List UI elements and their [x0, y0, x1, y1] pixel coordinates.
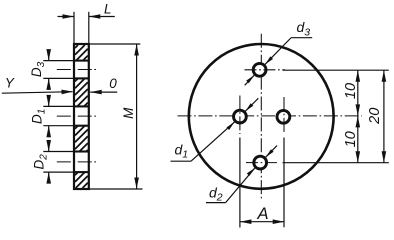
disc outline circle — [189, 44, 334, 189]
svg-text:D1: D1 — [30, 109, 48, 124]
hole d2 horizontal centerline — [246, 162, 279, 164]
hole d3 top — [253, 63, 266, 76]
extension line bottom (right view) — [283, 162, 389, 164]
hatching pattern bands — [75, 45, 88, 188]
hole d3 horizontal centerline — [245, 69, 286, 71]
dimension M line and arrows — [136, 45, 138, 189]
centerline hole D1 (left view) — [57, 115, 97, 117]
centerline hole D3 (left view) — [57, 69, 97, 71]
hole edge lines and extension lines (left view) — [43, 61, 88, 173]
dimension L extension lines — [73, 12, 75, 43]
dimension D1 line and arrows — [48, 96, 50, 106]
dimension M bottom extension line — [89, 188, 143, 190]
svg-text:10: 10 — [343, 131, 359, 147]
leader d1 lines — [245, 98, 258, 111]
svg-text:D2: D2 — [32, 154, 50, 170]
leader d3 arrows — [265, 56, 273, 64]
svg-text:0: 0 — [109, 76, 117, 91]
svg-text:20: 20 — [367, 108, 383, 125]
dimension 20 line and arrows — [383, 70, 385, 163]
svg-text:d1: d1 — [175, 142, 189, 161]
centerline hole D2 (left view) — [57, 161, 97, 163]
svg-text:M: M — [121, 107, 136, 119]
svg-text:d2: d2 — [209, 185, 223, 204]
leader O arrow — [90, 91, 117, 93]
svg-text:D3: D3 — [29, 61, 47, 77]
leader d3 lines — [265, 38, 291, 64]
dimension L line and arrows — [58, 16, 75, 18]
leader d2 lines — [266, 146, 277, 158]
leader d2 arrows — [266, 149, 274, 157]
dimension 10-10 line and arrows — [357, 70, 359, 163]
hole d1 vertical centerline / A extension left — [239, 96, 241, 135]
vertical centerline — [260, 34, 262, 201]
dimension D2 line and arrows — [48, 141, 50, 152]
hole d2 bottom — [254, 156, 267, 169]
leader d1 arrows — [245, 103, 253, 111]
dimension A line and arrows — [240, 221, 284, 223]
svg-text:10: 10 — [343, 83, 359, 99]
hole d1 left — [234, 110, 247, 123]
extension line top (right view) — [283, 69, 389, 71]
svg-text:d3: d3 — [297, 19, 311, 38]
plate cross-section outline — [74, 44, 89, 189]
dimension D3 line and arrows — [48, 50, 50, 61]
leader Y arrow — [2, 92, 73, 94]
svg-text:L: L — [104, 2, 112, 17]
hole right — [277, 110, 290, 123]
svg-text:Y: Y — [5, 75, 15, 90]
svg-text:A: A — [256, 205, 268, 223]
horizontal centerline — [178, 115, 363, 117]
dimension M top extension line — [89, 43, 141, 45]
hole right vertical centerline / A extension right — [283, 97, 285, 134]
